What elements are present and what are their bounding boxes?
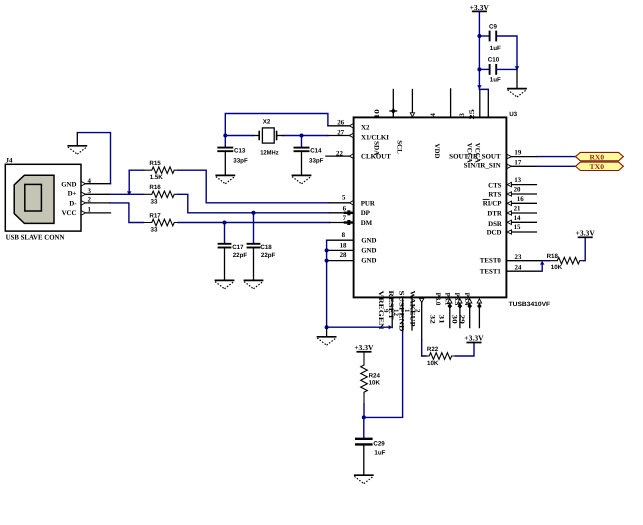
junction DP/C18 — [252, 211, 256, 215]
wire R16 to DP — [178, 194, 330, 213]
svg-text:+3.3V: +3.3V — [576, 229, 596, 238]
ground chip GND stem — [326, 327, 328, 337]
svg-text:2: 2 — [414, 309, 421, 313]
ground C13 — [215, 175, 235, 183]
svg-text:R22: R22 — [427, 346, 439, 353]
resistor R15 — [144, 160, 179, 181]
power +3.3V (R18) — [576, 229, 596, 238]
pin 15 DCD stub — [507, 224, 536, 234]
wire R18 to +3.3V — [584, 237, 586, 260]
wire TEST1 riser to TEST0 — [541, 264, 543, 272]
wire C9 right lead to gnd rail — [496, 36, 517, 68]
ground C17 — [215, 280, 235, 288]
svg-text:PUR: PUR — [361, 200, 376, 207]
pin 14 DSR stub — [507, 215, 536, 224]
svg-text:1uF: 1uF — [490, 77, 501, 84]
svg-text:14: 14 — [514, 215, 521, 222]
wire C13 to ground — [224, 151, 226, 175]
svg-text:VDD: VDD — [433, 144, 440, 159]
svg-text:17: 17 — [514, 159, 521, 166]
svg-text:25: 25 — [469, 108, 476, 119]
svg-text:TX0: TX0 — [590, 163, 605, 171]
junction DM/C17 — [223, 221, 227, 225]
svg-text:1uF: 1uF — [374, 450, 385, 457]
wire C9 left lead — [479, 35, 488, 37]
arrow C9 drop junction — [515, 66, 520, 70]
svg-text:X2: X2 — [361, 125, 370, 132]
svg-text:33: 33 — [151, 227, 158, 234]
wire R22 to +3.3V — [455, 343, 474, 357]
wire pin17 to TX0 tag — [537, 165, 576, 167]
pin 5 PUR stub — [330, 194, 354, 205]
top pins 3/25 tie — [459, 89, 488, 119]
svg-text:J4: J4 — [6, 157, 13, 164]
svg-text:29: 29 — [458, 315, 465, 325]
svg-text:R16: R16 — [149, 184, 161, 191]
svg-text:+3.3V: +3.3V — [464, 333, 484, 342]
svg-text:C14: C14 — [310, 148, 322, 155]
bottom pin P3.3 — [450, 293, 472, 328]
op-amp U3 chip body TUSB3410 — [354, 117, 507, 297]
top pin 10 line — [374, 90, 397, 119]
svg-text:19: 19 — [514, 150, 521, 157]
resistor R24 vertical — [361, 352, 381, 404]
pin 17 SIN stub — [507, 159, 537, 168]
bottom pin WAKEUP — [408, 291, 424, 342]
pin 1 stub — [81, 206, 110, 215]
svg-text:8: 8 — [342, 232, 346, 239]
wire C14 drop — [301, 136, 303, 148]
svg-text:33pF: 33pF — [233, 157, 248, 164]
capacitor C17 — [218, 244, 248, 259]
svg-text:22: 22 — [336, 150, 343, 157]
junction dot GND 28 — [325, 259, 329, 263]
capacitor C14 — [294, 148, 324, 165]
svg-text:5: 5 — [342, 194, 346, 201]
svg-text:DP: DP — [361, 210, 371, 217]
svg-text:SCL: SCL — [396, 140, 403, 154]
wire junction to C29 — [363, 417, 365, 437]
svg-text:21: 21 — [514, 206, 521, 213]
svg-text:P3.1: P3.1 — [443, 293, 450, 306]
pin 20 RTS stub — [507, 187, 536, 197]
power +3.3V (R24) — [354, 343, 374, 352]
svg-text:R15: R15 — [149, 160, 161, 167]
capacitor C18 — [247, 244, 276, 259]
svg-text:GND: GND — [361, 257, 376, 264]
svg-text:33pF: 33pF — [309, 157, 324, 164]
wire D+ net — [110, 193, 144, 195]
svg-text:C18: C18 — [260, 244, 272, 251]
svg-text:31: 31 — [437, 315, 444, 325]
svg-text:3: 3 — [459, 113, 466, 117]
wire ground stem — [76, 133, 78, 146]
svg-text:12MHz: 12MHz — [260, 150, 279, 157]
svg-text:6: 6 — [343, 205, 347, 212]
wire R17 to DM — [178, 222, 330, 224]
svg-text:22pF: 22pF — [233, 252, 248, 259]
pin 13 CTS stub — [507, 177, 536, 187]
ground (USB shield) — [67, 146, 87, 154]
svg-text:U3: U3 — [509, 111, 517, 118]
capacitor C9 — [489, 23, 501, 52]
svg-text:4: 4 — [88, 178, 92, 185]
resistor R18 — [547, 253, 584, 271]
wire crystal row — [225, 135, 253, 137]
svg-text:P3.4: P3.4 — [463, 293, 470, 306]
capacitor C13 — [217, 148, 248, 165]
svg-text:D+: D+ — [68, 190, 77, 197]
svg-text:USB SLAVE CONN: USB SLAVE CONN — [6, 234, 66, 242]
bottom pin SUSPEND — [398, 291, 412, 332]
wire 3.3V rail down — [478, 11, 480, 88]
pin 8 GND stub — [327, 232, 354, 240]
wire WAKEUP to R22 — [422, 340, 426, 356]
wire C17 drop — [224, 223, 226, 244]
arrow rail to pins 3/25 — [477, 85, 482, 89]
top pin SCL line — [410, 90, 414, 118]
bottom pin VREGEN — [377, 291, 392, 330]
resistor R16 — [144, 184, 179, 205]
pin 26 X2 stub — [328, 119, 354, 128]
svg-text:10K: 10K — [427, 360, 439, 367]
pin 27 X1/CLKI stub — [328, 130, 354, 138]
svg-text:SIN/IR_SIN: SIN/IR_SIN — [464, 162, 501, 169]
wire D+ to R15 riser — [129, 170, 143, 193]
svg-text:GND: GND — [361, 247, 376, 254]
svg-text:C17: C17 — [232, 244, 244, 251]
svg-text:32: 32 — [429, 315, 436, 325]
svg-text:18: 18 — [340, 242, 347, 249]
svg-text:C13: C13 — [234, 148, 246, 155]
junction dot C9 left — [477, 34, 481, 38]
svg-text:P3.3: P3.3 — [453, 293, 460, 306]
svg-text:X2: X2 — [263, 119, 271, 126]
junction dot RESET/R24/C29 — [362, 415, 366, 419]
svg-text:+3.3V: +3.3V — [470, 3, 490, 12]
junction arrow on D+ — [127, 191, 132, 195]
svg-text:TEST0: TEST0 — [480, 258, 502, 265]
arrow GND wire to VREGEN — [389, 325, 393, 329]
pin 24 TEST1 stub — [506, 265, 540, 272]
svg-text:DSR: DSR — [488, 221, 503, 228]
svg-text:2: 2 — [88, 197, 92, 204]
crystal X2 — [253, 119, 283, 157]
wire R24 to junction — [363, 404, 365, 418]
svg-text:7: 7 — [343, 215, 347, 222]
pin 2 stub — [81, 197, 110, 206]
svg-text:10K: 10K — [551, 264, 563, 271]
ground C29 — [354, 475, 374, 483]
junction dot GND 18 — [325, 248, 329, 252]
svg-text:C10: C10 — [488, 57, 500, 64]
bottom pin P3.4 — [458, 293, 482, 328]
svg-text:27: 27 — [337, 130, 344, 137]
svg-text:RTS: RTS — [488, 191, 501, 198]
wire junction to RESET pin — [364, 331, 403, 417]
svg-text:15: 15 — [514, 224, 521, 231]
svg-text:24: 24 — [515, 265, 522, 272]
wire R15 to PUR — [178, 170, 330, 203]
svg-text:DCD: DCD — [487, 229, 502, 236]
wire C10 right lead — [496, 68, 517, 70]
svg-text:R18: R18 — [547, 253, 559, 260]
svg-text:D-: D- — [69, 200, 77, 207]
wire C18 drop — [253, 213, 255, 243]
svg-text:1.5K: 1.5K — [150, 174, 164, 181]
power +3.3V (top) — [470, 3, 490, 12]
svg-text:C29: C29 — [373, 441, 385, 448]
svg-text:RI/CP: RI/CP — [483, 201, 503, 208]
pin 16 RI/CP stub — [507, 196, 536, 206]
svg-text:26: 26 — [337, 119, 344, 126]
pin 6 DP stub — [330, 205, 354, 215]
svg-text:SDA: SDA — [373, 141, 380, 156]
svg-text:13: 13 — [514, 177, 521, 184]
svg-text:RX0: RX0 — [590, 153, 605, 161]
pin 28 GND stub — [327, 252, 354, 261]
svg-text:23: 23 — [515, 254, 522, 261]
pin name RI/CP overline — [483, 198, 490, 200]
capacitor C29 — [355, 439, 386, 457]
junction crystal right / C14 — [300, 134, 304, 138]
svg-text:C9: C9 — [489, 23, 497, 30]
svg-text:GND: GND — [361, 237, 376, 244]
ground C18 — [244, 280, 264, 288]
svg-text:22pF: 22pF — [261, 252, 276, 259]
GND tie wire — [327, 240, 390, 327]
arrow TEST1 junction — [540, 261, 545, 265]
svg-text:4: 4 — [430, 113, 437, 117]
svg-text:SOUT/IR_SOUT: SOUT/IR_SOUT — [449, 154, 501, 161]
svg-text:R17: R17 — [149, 212, 161, 219]
ground C9/C10 — [507, 89, 527, 97]
net tag RX0 — [576, 152, 624, 161]
ground stem C9/C10 — [516, 69, 518, 88]
wire TEST0 to R18 — [543, 260, 550, 262]
wire crystal right to X1 pin27 — [283, 135, 328, 137]
connector J4 body — [5, 164, 81, 231]
svg-text:33: 33 — [151, 198, 158, 205]
svg-text:20: 20 — [514, 187, 521, 194]
resistor R22 — [421, 346, 456, 367]
svg-text:P3.0: P3.0 — [434, 293, 441, 306]
svg-text:TUSB3410VF: TUSB3410VF — [509, 301, 551, 308]
bottom pin P3.1 — [437, 293, 462, 328]
svg-text:R24: R24 — [369, 372, 381, 379]
power +3.3V (R22) — [464, 333, 484, 342]
svg-text:+3.3V: +3.3V — [354, 343, 374, 352]
top pin 4 VDD line — [430, 89, 451, 118]
wire D- net — [110, 203, 144, 223]
svg-text:1: 1 — [88, 206, 92, 213]
junction crystal left / C13 — [223, 134, 227, 138]
svg-text:30: 30 — [450, 315, 457, 325]
resistor R17 — [144, 212, 179, 233]
ground C14 — [292, 175, 312, 183]
svg-text:CTS: CTS — [488, 182, 502, 189]
wire crystal top rail to X2 pin26 — [225, 114, 328, 136]
wire USB GND riser — [78, 133, 111, 184]
svg-text:10: 10 — [374, 108, 381, 118]
ground chip GND — [317, 337, 337, 345]
svg-text:DM: DM — [361, 220, 373, 227]
svg-text:GND: GND — [61, 181, 76, 188]
svg-text:3: 3 — [88, 188, 92, 195]
bottom pin P3.0 — [429, 293, 453, 328]
bottom pin RESET — [387, 291, 403, 333]
svg-text:DTR: DTR — [487, 211, 503, 218]
svg-text:TEST1: TEST1 — [480, 268, 502, 275]
capacitor C10 — [488, 57, 501, 84]
net tag TX0 — [576, 162, 624, 171]
wire pin19 to RX0 tag — [537, 156, 576, 158]
svg-text:VCC: VCC — [62, 210, 77, 217]
wire C29 to ground — [363, 444, 365, 475]
junction dot C10 left — [477, 67, 481, 71]
pin 22 CLKOUT stub — [326, 150, 354, 158]
svg-text:10K: 10K — [369, 380, 381, 387]
wire C17 to ground — [224, 248, 226, 281]
pin 21 DTR stub — [507, 206, 536, 216]
pin 7 DM stub — [330, 215, 354, 225]
svg-text:28: 28 — [340, 252, 347, 259]
wire C13 drop — [224, 136, 226, 148]
junction dot GND corner — [325, 325, 329, 329]
pin 19 SOUT stub — [507, 150, 537, 159]
wire C14 to ground — [301, 151, 303, 175]
svg-text:16: 16 — [517, 196, 524, 203]
pin 23 TEST0 stub — [506, 254, 542, 261]
pin 3 stub — [81, 188, 110, 197]
wire C18 to ground — [253, 248, 255, 281]
wire C10 left lead — [479, 68, 488, 70]
svg-text:1uF: 1uF — [490, 45, 501, 52]
pin 4 stub — [81, 178, 110, 186]
pin 18 GND stub — [327, 242, 354, 250]
